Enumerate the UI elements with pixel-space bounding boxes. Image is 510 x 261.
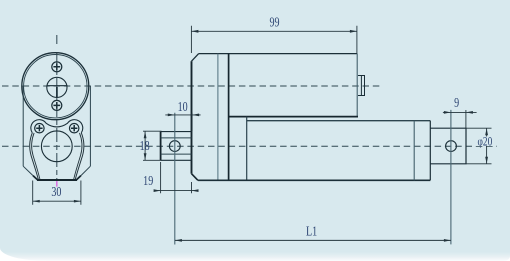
- end view: top screw: [52, 62, 62, 72]
- dim 99 arrows: [191, 30, 357, 33]
- end view: gear hub center dash: [47, 85, 68, 87]
- svg-text:99: 99: [269, 14, 279, 30]
- dim L1 arrows: [175, 239, 451, 242]
- end view: left tangent side: [22, 86, 24, 166]
- end view: housing outer circle: [22, 53, 89, 120]
- tube right edge: [429, 121, 431, 181]
- end view: base bar: [37, 179, 77, 181]
- tube bottom edge: [198, 179, 430, 181]
- connector on motor: [358, 76, 365, 96]
- center line horizontal (rod axis): [2, 145, 497, 147]
- dim 99 text: [269, 14, 279, 30]
- end view: clamp inner wall right: [74, 133, 82, 179]
- clevis top edge: [161, 131, 192, 133]
- dim L1 line: [175, 239, 451, 241]
- dim phi20 text background: [476, 137, 495, 147]
- svg-text:30: 30: [51, 183, 61, 199]
- end view: right lower chamfer: [81, 166, 91, 175]
- dim 10 text: [178, 99, 188, 115]
- end view: bottom screw: [52, 100, 62, 110]
- end view: rod bore circle: [41, 131, 72, 162]
- dim 30 arrows: [33, 200, 81, 203]
- clevis bottom edge: [161, 159, 192, 161]
- dim 18 line: [144, 131, 146, 160]
- tube top edge: [247, 120, 431, 122]
- dim phi20 arrows: [485, 128, 488, 164]
- gearbox/motor boundary: [228, 54, 230, 181]
- clevis slot top line: [161, 137, 192, 139]
- dim 19 line: [155, 190, 198, 192]
- dim 99 line: [191, 30, 357, 32]
- dim 9 arrows: [444, 111, 473, 114]
- dim phi20 extension lines: [467, 128, 492, 164]
- clevis outer rect left edge: [160, 132, 162, 161]
- motor top-left chamfer: [192, 54, 199, 62]
- rod hole vertical center line: [450, 110, 452, 245]
- end view: housing inner circle: [24, 54, 87, 117]
- end view: clamp inner wall left: [32, 133, 40, 179]
- rod end block: [430, 128, 466, 164]
- dim 19 extension lines: [161, 162, 192, 193]
- center line horizontal (motor axis): [2, 85, 382, 87]
- svg-text:19: 19: [143, 173, 153, 189]
- end view: clamp screw right: [70, 124, 79, 133]
- motor right edge: [356, 54, 358, 117]
- end view: clamp screw left: [35, 124, 44, 133]
- end view: gear hub circle: [47, 77, 67, 97]
- dim 18 text: [140, 138, 150, 154]
- end view: gear hub key mark: [56, 87, 58, 97]
- center line vertical (end view): [56, 53, 58, 179]
- dim 10 line: [165, 114, 200, 116]
- dim 19 text: [143, 173, 153, 189]
- end view: clamp outer wall left: [30, 133, 39, 179]
- tube end cap line: [413, 121, 415, 181]
- dim 30 extension lines: [33, 181, 81, 205]
- gearbox front face: [191, 61, 193, 174]
- gearbox internal line: [217, 54, 219, 181]
- end view: left lower chamfer: [23, 166, 33, 175]
- motor bottom edge: [229, 116, 358, 118]
- center line vertical top tick (end view): [56, 35, 58, 44]
- dim phi20 text: [478, 135, 493, 149]
- svg-text:18: 18: [140, 138, 150, 154]
- dim 30 text: [51, 183, 61, 199]
- svg-text:10: 10: [178, 99, 188, 115]
- dim 30 line: [33, 200, 81, 202]
- magenta center line segment: [56, 181, 58, 187]
- end view: right tangent side: [89, 86, 91, 166]
- dim 18 extension lines: [143, 131, 162, 160]
- end view: clamp top profile with screw bosses: [31, 120, 83, 133]
- end view: base bar thick chamfer left: [33, 176, 38, 180]
- dim 19 arrows: [154, 189, 199, 192]
- dim 99 extension lines: [191, 26, 357, 54]
- clevis hole: [169, 141, 180, 152]
- dim 10 arrows: [168, 114, 199, 117]
- clevis slot bottom line: [161, 153, 192, 155]
- svg-text:9: 9: [454, 94, 459, 110]
- motor top edge: [199, 53, 357, 55]
- dim phi20 line: [486, 128, 488, 164]
- dim L1 text: [306, 223, 317, 239]
- svg-text:L1: L1: [306, 223, 317, 239]
- svg-text:φ20: φ20: [478, 135, 493, 149]
- rod end hole: [446, 141, 457, 152]
- dim 9 extension line: [465, 110, 467, 128]
- tube left internal line: [246, 117, 248, 181]
- gearbox bottom chamfer: [192, 174, 198, 181]
- clevis hole vertical center line: [174, 113, 176, 245]
- dim 9 text: [454, 94, 459, 110]
- dim 18 arrows: [144, 131, 147, 160]
- dim 9 line: [443, 111, 477, 113]
- end view: base bar thick chamfer right: [76, 176, 81, 180]
- end view: clamp outer wall right: [75, 133, 84, 179]
- dim 10 extension line: [191, 113, 193, 131]
